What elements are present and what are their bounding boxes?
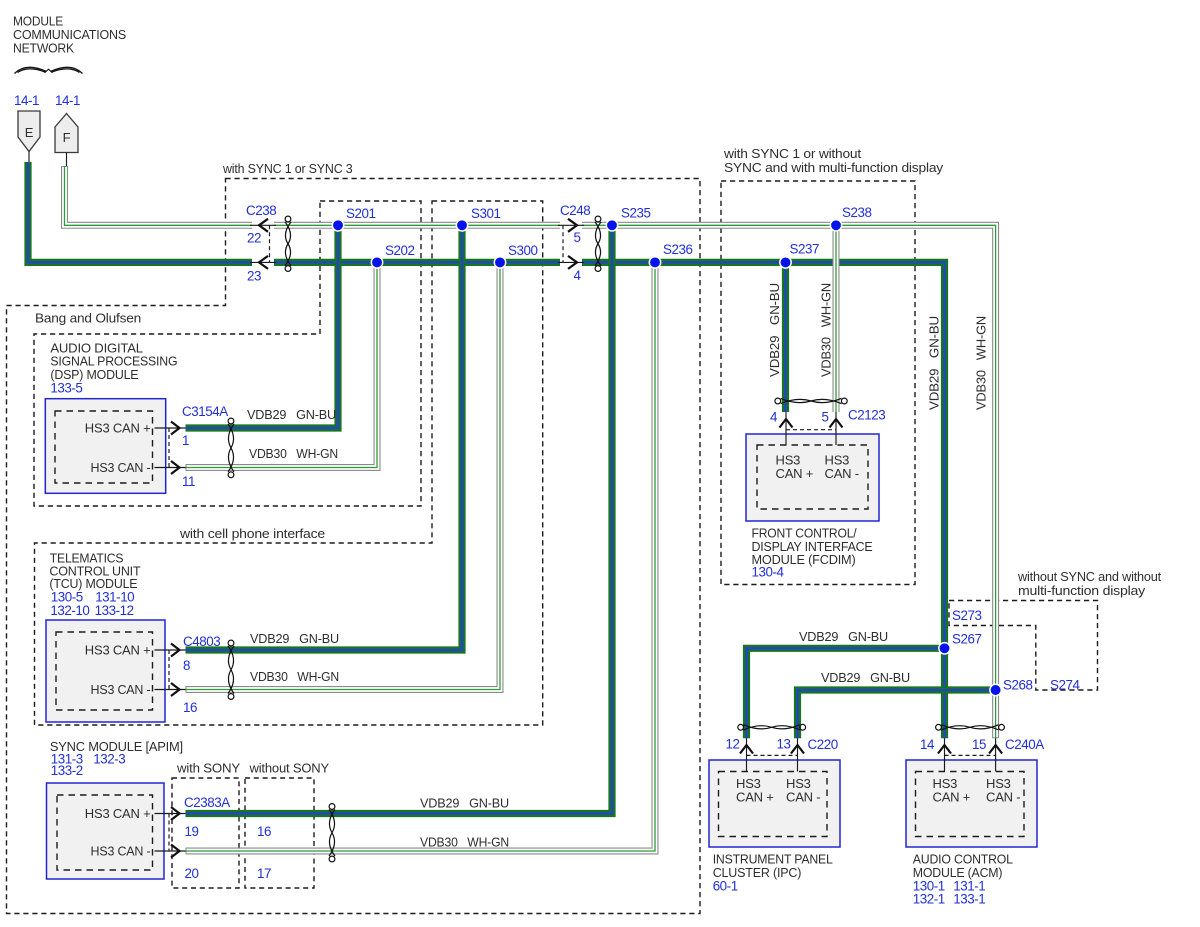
wire VDB29 GN-BU from IPC pin 12 up and right to S267 xyxy=(747,648,945,738)
splice S237 xyxy=(780,257,791,268)
svg-text:HS3 CAN -: HS3 CAN - xyxy=(91,460,151,475)
dashed region: S301/S300 + cell phone interface box xyxy=(35,201,543,725)
svg-text:CAN -: CAN - xyxy=(825,466,859,481)
connector C2383A arrow pin 20 xyxy=(171,845,180,858)
svg-text:HS3 CAN -: HS3 CAN - xyxy=(91,682,151,697)
svg-text:22: 22 xyxy=(247,231,261,246)
svg-text:with SONY: with SONY xyxy=(176,760,241,775)
svg-text:CAN -: CAN - xyxy=(786,790,820,805)
SYNC module title xyxy=(50,739,183,778)
dashed region: without SONY box xyxy=(245,778,314,888)
svg-text:130-4: 130-4 xyxy=(752,565,785,580)
ACM HS3 CAN + pin text xyxy=(933,776,971,805)
svg-text:CAN +: CAN + xyxy=(776,466,814,481)
svg-text:S300: S300 xyxy=(508,243,537,258)
connector C220 arrow pin 12 xyxy=(740,745,753,754)
svg-text:13: 13 xyxy=(777,737,791,752)
svg-text:60-1: 60-1 xyxy=(713,879,738,894)
connector C238 arrow pin 22 xyxy=(259,219,268,232)
svg-text:S268: S268 xyxy=(1003,678,1032,693)
FCDIM HS3 CAN - pin text xyxy=(825,453,859,482)
wire VDB29 GN-BU from S235 down to SYNC pin 19 xyxy=(186,225,613,813)
IPC HS3 CAN - pin text xyxy=(786,776,820,805)
twisted pair symbol at C238 xyxy=(285,216,291,271)
svg-text:11: 11 xyxy=(182,474,195,489)
svg-text:CAN -: CAN - xyxy=(986,790,1020,805)
pin line ACM pin 15 xyxy=(995,738,997,771)
module box ACM xyxy=(906,760,1037,847)
pin line DSP pin 1 xyxy=(155,427,186,429)
connector E symbol xyxy=(18,111,40,163)
wire VDB30 WH-GN bus segment C238 to C248 xyxy=(273,222,561,229)
svg-text:VDB29 GN-BU: VDB29 GN-BU xyxy=(821,670,910,685)
wire VDB30 WH-GN from S202 down to DSP pin 11 xyxy=(186,261,378,467)
module box IPC inner dashed xyxy=(719,772,828,837)
splice S268 xyxy=(990,684,1001,695)
wire VDB29 GN-BU bus segment C238 to C248 xyxy=(274,259,560,266)
svg-text:without SYNC and without: without SYNC and without xyxy=(1017,569,1162,584)
svg-text:S237: S237 xyxy=(790,242,819,257)
wire VDB29 GN-BU from S237 down to FCDIM pin 4 xyxy=(782,262,789,412)
dashed region: without SYNC / S273 S274 box xyxy=(949,601,1098,691)
svg-text:HS3 CAN +: HS3 CAN + xyxy=(85,642,151,657)
svg-text:17: 17 xyxy=(257,866,271,881)
svg-text:S236: S236 xyxy=(663,242,692,257)
svg-text:4: 4 xyxy=(770,410,778,425)
svg-text:Bang and Olufsen: Bang and Olufsen xyxy=(35,311,141,326)
svg-text:132-1: 132-1 xyxy=(913,892,945,907)
module box SYNC APIM xyxy=(47,783,165,879)
svg-text:HS3 CAN +: HS3 CAN + xyxy=(85,806,151,821)
module box DSP inner dashed xyxy=(55,411,153,483)
pin line DSP pin 11 xyxy=(155,467,186,469)
module box SYNC inner dashed xyxy=(57,795,153,870)
twisted pair symbol at C240A xyxy=(936,724,1005,730)
svg-text:VDB30 WH-GN: VDB30 WH-GN xyxy=(819,283,834,377)
wire VDB30 WH-GN from connector F down and right to C238 xyxy=(65,166,254,225)
svg-text:CAN +: CAN + xyxy=(933,790,971,805)
svg-text:15: 15 xyxy=(972,737,986,752)
svg-text:4: 4 xyxy=(574,268,582,283)
twisted pair symbol at C248 xyxy=(595,216,601,271)
svg-text:C240A: C240A xyxy=(1005,737,1044,752)
connector C238 dashed link xyxy=(269,225,271,262)
svg-text:S274: S274 xyxy=(1050,678,1080,693)
svg-text:132-10: 132-10 xyxy=(50,603,89,618)
pin line IPC pin 12 xyxy=(746,738,748,771)
splice S238 xyxy=(830,220,841,231)
svg-text:VDB29 GN-BU: VDB29 GN-BU xyxy=(927,316,942,410)
pin line IPC pin 13 xyxy=(797,738,799,771)
brace symbol under title xyxy=(15,67,83,73)
wire VDB29 GN-BU from S201 down to DSP pin 1 xyxy=(186,225,339,428)
module box IPC xyxy=(709,760,840,847)
svg-text:12: 12 xyxy=(726,737,740,752)
pin line ACM pin 14 xyxy=(944,738,946,771)
svg-text:SYNC and with multi-function d: SYNC and with multi-function display xyxy=(724,160,944,175)
connector C220 arrow pin 13 xyxy=(791,745,804,754)
twisted pair symbol at C2383A xyxy=(329,804,335,862)
TCU module title xyxy=(49,551,140,619)
IPC HS3 CAN + pin text xyxy=(736,776,774,805)
svg-text:VDB30 WH-GN: VDB30 WH-GN xyxy=(420,835,509,850)
wire VDB29 GN-BU from IPC pin 13 up and right to S268 xyxy=(798,690,996,738)
connector C3154A dashed link xyxy=(168,428,170,468)
connector C2123 dashed link xyxy=(786,429,836,431)
splice S300 xyxy=(494,257,505,268)
twisted pair symbol at C4803 xyxy=(228,640,234,699)
pin line FCDIM pin 5 xyxy=(835,412,837,445)
svg-text:S273: S273 xyxy=(952,608,981,623)
svg-text:HS3 CAN +: HS3 CAN + xyxy=(85,420,151,435)
svg-text:16: 16 xyxy=(183,700,197,715)
svg-text:VDB29 GN-BU: VDB29 GN-BU xyxy=(799,629,888,644)
pin line C238 pin 22 xyxy=(250,224,276,226)
dashed region: with SONY box xyxy=(172,778,239,888)
connector C240A arrow pin 15 xyxy=(989,745,1002,754)
svg-text:S201: S201 xyxy=(346,206,375,221)
svg-text:20: 20 xyxy=(185,866,199,881)
connector C2383A dashed link xyxy=(168,814,170,852)
wire VDB30 WH-GN from S300 down to TCU pin 16 xyxy=(186,261,501,689)
svg-text:8: 8 xyxy=(183,658,190,673)
connector C2123 arrow pin 4 xyxy=(780,419,793,428)
svg-text:F: F xyxy=(63,130,71,145)
module box TCU xyxy=(46,620,165,722)
splice S267 xyxy=(939,643,950,654)
pin line TCU pin 8 xyxy=(155,649,186,651)
svg-text:5: 5 xyxy=(574,230,581,245)
connector C248 dashed link xyxy=(562,225,564,262)
pin line TCU pin 16 xyxy=(155,689,186,691)
wire VDB29 GN-BU bus segment C248 to right corner down to ACM pin 14 xyxy=(582,262,945,738)
connector C248 arrow pin 4 xyxy=(568,256,577,269)
svg-text:C238: C238 xyxy=(246,203,276,218)
pin line C248 pin 5 xyxy=(558,224,584,226)
svg-text:C2123: C2123 xyxy=(848,408,885,423)
svg-text:VDB30 WH-GN: VDB30 WH-GN xyxy=(249,446,338,461)
twisted pair symbol at C3154A xyxy=(228,418,234,478)
dashed region: Bang and Olufsen + S201/S202 box xyxy=(34,201,421,506)
IPC module title xyxy=(713,852,833,894)
dashed region: with SYNC 1 or without SYNC box xyxy=(721,181,915,585)
svg-text:132-3: 132-3 xyxy=(93,751,125,766)
svg-text:without SONY: without SONY xyxy=(248,760,329,775)
svg-text:C248: C248 xyxy=(560,203,590,218)
module box FCDIM inner dashed xyxy=(757,445,868,509)
FCDIM module title xyxy=(752,526,873,580)
svg-text:14: 14 xyxy=(920,737,935,752)
pin line FCDIM pin 4 xyxy=(785,412,787,445)
svg-text:with SYNC 1 or SYNC 3: with SYNC 1 or SYNC 3 xyxy=(222,161,352,176)
svg-text:VDB30 WH-GN: VDB30 WH-GN xyxy=(250,669,339,684)
connector C3154A arrow pin 1 xyxy=(171,422,180,435)
svg-text:with cell phone interface: with cell phone interface xyxy=(179,526,325,541)
splice S301 xyxy=(456,220,467,231)
splice S236 xyxy=(649,257,660,268)
connector C240A arrow pin 14 xyxy=(938,745,951,754)
svg-text:C3154A: C3154A xyxy=(182,404,228,419)
wire VDB29 GN-BU from S301 down to TCU pin 8 xyxy=(186,225,463,650)
svg-text:19: 19 xyxy=(185,824,199,839)
svg-text:133-2: 133-2 xyxy=(51,763,83,778)
splice S202 xyxy=(371,257,382,268)
svg-text:C4803: C4803 xyxy=(183,634,220,649)
ACM module title xyxy=(913,852,1013,907)
connector C220 dashed link xyxy=(747,754,798,756)
svg-text:14-1: 14-1 xyxy=(14,93,39,108)
svg-text:S235: S235 xyxy=(621,206,650,221)
connector C4803 arrow pin 8 xyxy=(171,644,180,657)
splice S235 xyxy=(606,220,617,231)
svg-text:VDB29 GN-BU: VDB29 GN-BU xyxy=(250,631,339,646)
svg-text:VDB29 GN-BU: VDB29 GN-BU xyxy=(247,407,336,422)
svg-text:16: 16 xyxy=(257,824,271,839)
svg-text:S202: S202 xyxy=(385,243,414,258)
wire VDB30 WH-GN from S238 down to FCDIM pin 5 xyxy=(833,224,840,412)
twisted pair symbol at C2123 xyxy=(775,398,847,404)
connector C3154A arrow pin 11 xyxy=(171,461,180,474)
connector C238 arrow pin 23 xyxy=(259,256,268,269)
svg-text:133-5: 133-5 xyxy=(50,381,82,396)
svg-text:multi-function display: multi-function display xyxy=(1018,583,1146,598)
svg-text:1: 1 xyxy=(182,433,189,448)
FCDIM HS3 CAN + pin text xyxy=(776,453,814,482)
svg-text:C2383A: C2383A xyxy=(184,795,230,810)
svg-text:VDB30 WH-GN: VDB30 WH-GN xyxy=(974,316,989,410)
connector C248 arrow pin 5 xyxy=(568,219,577,232)
twisted pair symbol at C220 xyxy=(738,724,806,730)
connector C2123 arrow pin 5 xyxy=(830,419,843,428)
wire VDB30 WH-GN from S236 down to SYNC pin 20 xyxy=(186,261,656,851)
pin line SYNC pin 20 xyxy=(155,850,186,852)
svg-text:with SYNC 1 or without: with SYNC 1 or without xyxy=(723,146,862,161)
dashed region: outer module-options box xyxy=(7,179,701,914)
module box DSP xyxy=(45,399,165,494)
connector C4803 arrow pin 16 xyxy=(171,683,180,696)
svg-text:HS3 CAN -: HS3 CAN - xyxy=(91,843,151,858)
pin line SYNC pin 19 xyxy=(155,813,186,815)
svg-text:133-12: 133-12 xyxy=(95,603,134,618)
region label: with SYNC 1 or without SYNC xyxy=(723,146,944,175)
connector C2383A arrow pin 19 xyxy=(171,807,180,820)
title MODULE COMMUNICATIONS NETWORK xyxy=(13,14,126,56)
svg-text:S267: S267 xyxy=(952,632,981,647)
svg-text:14-1: 14-1 xyxy=(55,93,80,108)
pin line C248 pin 4 xyxy=(558,261,584,263)
ACM HS3 CAN - pin text xyxy=(986,776,1020,805)
svg-text:NETWORK: NETWORK xyxy=(13,41,74,56)
connector C4803 dashed link xyxy=(168,650,170,690)
connector C240A dashed link xyxy=(945,754,996,756)
wire VDB29 GN-BU from connector E down and right to C238 xyxy=(28,162,252,262)
svg-text:C220: C220 xyxy=(808,737,838,752)
DSP module title xyxy=(50,341,177,396)
module box FCDIM xyxy=(746,434,879,521)
pin line C238 pin 23 xyxy=(250,261,276,263)
svg-text:133-1: 133-1 xyxy=(953,892,985,907)
region label: without SYNC and without multi-function display xyxy=(1017,569,1162,598)
svg-text:VDB29 GN-BU: VDB29 GN-BU xyxy=(767,283,782,377)
svg-text:23: 23 xyxy=(247,269,261,284)
module box TCU inner dashed xyxy=(56,632,153,710)
svg-text:S301: S301 xyxy=(471,206,500,221)
module box ACM inner dashed xyxy=(916,772,1025,837)
wire VDB30 WH-GN bus segment C248 to right corner down to ACM pin 15 xyxy=(581,225,996,738)
svg-text:CAN +: CAN + xyxy=(736,790,774,805)
connector F symbol xyxy=(55,114,78,167)
splice S201 xyxy=(332,220,343,231)
svg-text:E: E xyxy=(25,125,34,140)
svg-text:VDB29 GN-BU: VDB29 GN-BU xyxy=(420,796,509,811)
svg-text:S238: S238 xyxy=(842,205,871,220)
svg-text:5: 5 xyxy=(822,410,829,425)
